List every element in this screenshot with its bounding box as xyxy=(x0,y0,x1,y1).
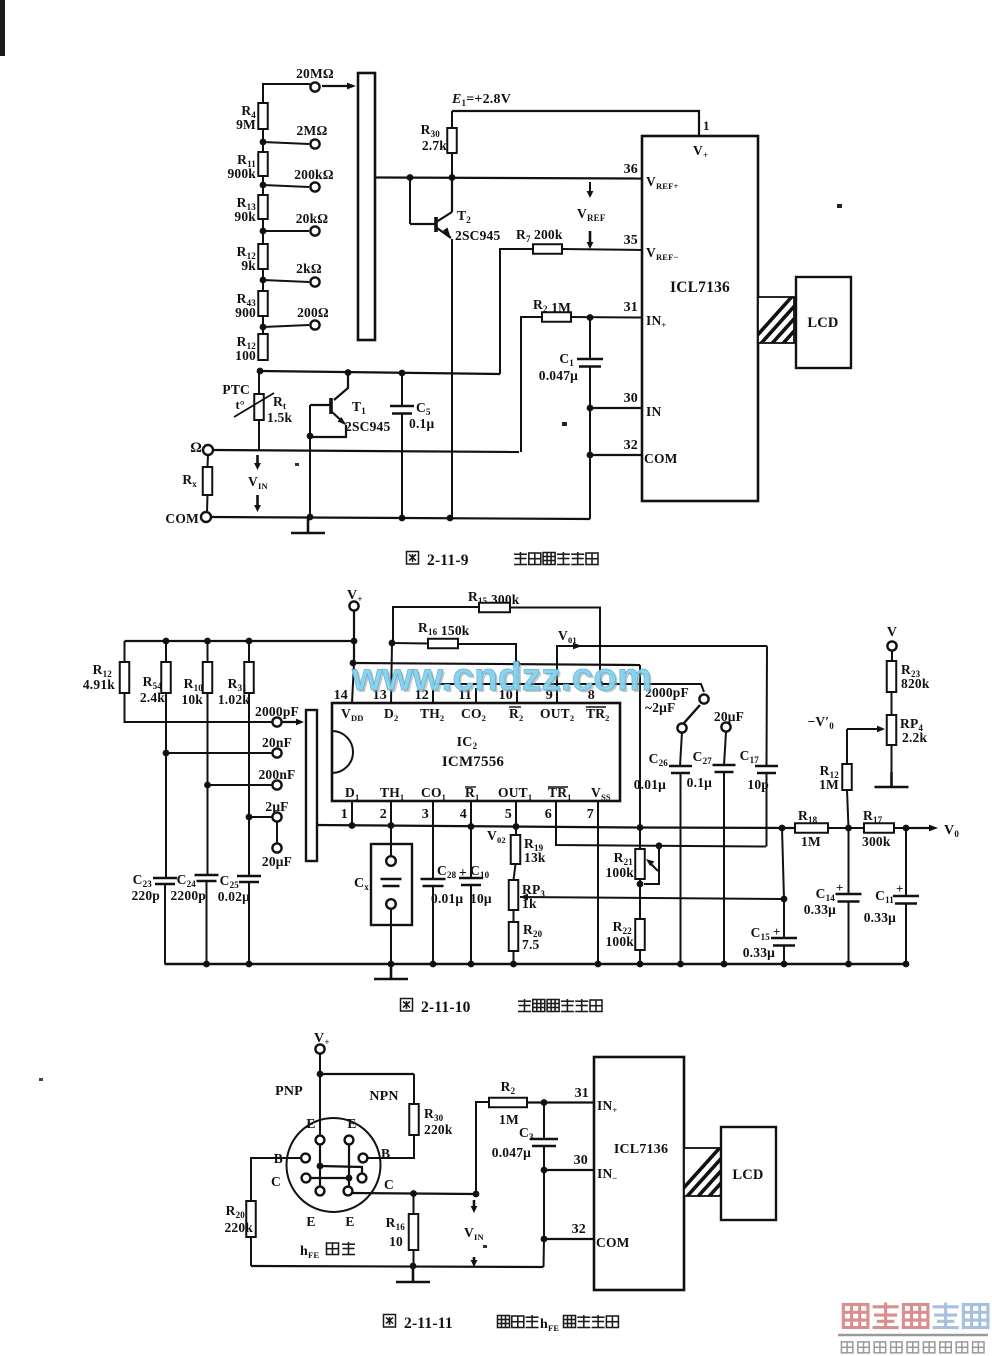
resistor R30 220k xyxy=(409,1104,419,1135)
wire xyxy=(905,828,907,896)
contact 200k&#937; xyxy=(310,182,319,191)
wire pin 6 TR1 node xyxy=(556,801,766,847)
node junction xyxy=(430,961,437,968)
wire xyxy=(783,899,785,938)
logo yiditu training xyxy=(843,1305,868,1328)
node junction xyxy=(407,174,414,181)
resistor R22 100k xyxy=(635,919,645,950)
svg-text:0.02μ: 0.02μ xyxy=(218,889,250,904)
svg-text:4: 4 xyxy=(460,807,467,822)
resistor R43 xyxy=(258,291,268,316)
resistor R16 10 xyxy=(409,1214,419,1250)
wire xyxy=(322,85,352,87)
svg-text:COM: COM xyxy=(644,451,678,466)
contact 2M&#937; xyxy=(310,139,319,148)
svg-text:200Ω: 200Ω xyxy=(297,305,329,320)
wire xyxy=(905,903,907,964)
annotation VIN xyxy=(256,455,259,466)
svg-text:20kΩ: 20kΩ xyxy=(296,211,329,226)
svg-text:ICM7556: ICM7556 xyxy=(442,754,505,770)
rotary selector bar S2 xyxy=(306,710,317,861)
wire supply rail xyxy=(125,640,355,642)
wire xyxy=(262,185,264,195)
svg-text:31: 31 xyxy=(575,1086,589,1101)
terminal V+ xyxy=(315,1044,324,1053)
caption fig 2-11-11 xyxy=(384,1315,396,1328)
wire pin 10 stub xyxy=(516,664,518,703)
ground xyxy=(374,964,408,979)
svg-text:E1=+2.8V: E1=+2.8V xyxy=(451,92,511,108)
wire TH2-TR2 node xyxy=(433,684,704,703)
wire xyxy=(680,773,682,964)
wire xyxy=(513,951,515,964)
paper speck xyxy=(39,1078,43,1081)
svg-text:E: E xyxy=(306,1116,315,1131)
socket pin C left xyxy=(302,1174,311,1183)
wire xyxy=(413,1250,415,1266)
wire to pin 31 xyxy=(571,316,642,319)
node junction xyxy=(656,842,663,849)
resistor R11 xyxy=(258,152,268,176)
wire to R2 xyxy=(476,1102,489,1194)
terminal COM xyxy=(201,512,211,522)
wire xyxy=(514,864,516,880)
svg-text:+: + xyxy=(896,881,904,896)
node junction xyxy=(399,515,406,522)
wire xyxy=(589,408,591,455)
wire xyxy=(250,1237,252,1266)
svg-text:IN: IN xyxy=(646,404,661,419)
resistor R18 1M xyxy=(795,823,828,833)
contact 2000pF xyxy=(272,717,281,726)
ground xyxy=(875,772,909,787)
svg-text:100k: 100k xyxy=(605,865,634,880)
node junction xyxy=(447,515,454,522)
wire to R30 xyxy=(320,1073,414,1075)
svg-text:PTC: PTC xyxy=(222,382,250,397)
node junction xyxy=(468,823,475,830)
svg-text:www.cndzz.com: www.cndzz.com xyxy=(351,656,652,699)
contact 200nF xyxy=(272,780,281,789)
wire pin stub xyxy=(470,801,472,826)
node junction xyxy=(637,824,644,831)
capacitor C15 0.33u xyxy=(771,938,797,946)
svg-text:1: 1 xyxy=(341,807,348,822)
node junction xyxy=(246,638,253,645)
resistor R15 300k xyxy=(479,603,510,613)
wire C5 to COM rail xyxy=(401,414,403,519)
wire rail to R21 xyxy=(353,663,640,665)
wire xyxy=(500,249,533,374)
IC U3 ICL7136 xyxy=(594,1057,684,1290)
capacitor C17 10p xyxy=(755,766,778,773)
capacitor C11 0.33u xyxy=(893,896,919,904)
resistor R16 150k xyxy=(428,639,458,649)
socket pin E top-left xyxy=(316,1136,325,1145)
svg-text:Ω: Ω xyxy=(190,440,202,456)
svg-text:COM: COM xyxy=(596,1235,630,1250)
wire xyxy=(262,219,264,231)
wire Cx to rail xyxy=(390,909,392,964)
contact switch bottom xyxy=(677,723,686,732)
svg-text:1M: 1M xyxy=(801,834,821,849)
capacitor C10 10u xyxy=(459,878,483,885)
node junction xyxy=(468,961,475,968)
wire xyxy=(401,373,403,406)
scan edge artifact xyxy=(0,0,5,56)
svg-text:0.01μ: 0.01μ xyxy=(634,777,666,792)
wire xyxy=(589,366,591,408)
svg-text:3: 3 xyxy=(422,807,429,822)
svg-text:2200p: 2200p xyxy=(170,888,206,903)
svg-text:~2μF: ~2μF xyxy=(645,700,675,715)
svg-text:0.33μ: 0.33μ xyxy=(804,902,836,917)
svg-text:31: 31 xyxy=(624,300,638,315)
rotary selector bar S1 xyxy=(358,73,375,340)
socket pin B right xyxy=(359,1154,368,1163)
wire switch arm xyxy=(684,705,700,723)
node junction xyxy=(307,514,314,521)
svg-text:14: 14 xyxy=(334,688,348,703)
resistor R30 2.7k xyxy=(447,128,457,153)
svg-text:2kΩ: 2kΩ xyxy=(296,261,322,276)
wire socket internal xyxy=(319,1144,321,1187)
wire ground rail xyxy=(165,963,907,965)
svg-text:LCD: LCD xyxy=(732,1167,763,1183)
resistor R23 820k xyxy=(887,661,897,692)
wire xyxy=(393,607,479,643)
wire 2000pF range xyxy=(125,693,273,722)
wire socket internal xyxy=(348,1144,350,1187)
contact 20M xyxy=(310,82,319,91)
wire 20nF range xyxy=(166,752,272,754)
resistor R20 220k xyxy=(246,1201,256,1237)
caption fig 2-11-9 xyxy=(407,552,419,565)
resistor R12 1M xyxy=(842,764,852,790)
resistor R20 7.5 xyxy=(509,922,519,951)
wire T2 emitter down to COM rail xyxy=(451,239,453,518)
node junction xyxy=(351,638,358,645)
svg-text:0.01μ: 0.01μ xyxy=(431,891,463,906)
wire RP3 wiper xyxy=(520,897,784,899)
wire xyxy=(782,828,784,899)
capacitor C14 0.33u xyxy=(836,894,862,902)
svg-text:PNP: PNP xyxy=(275,1084,303,1099)
wire V+ down to socket xyxy=(319,1054,321,1136)
wire xyxy=(846,729,848,764)
svg-text:2SC945: 2SC945 xyxy=(345,419,391,434)
svg-text:1: 1 xyxy=(703,118,710,133)
wire xyxy=(521,317,542,452)
svg-text:2: 2 xyxy=(380,807,387,822)
svg-text:COM: COM xyxy=(165,511,199,526)
node junction xyxy=(449,174,456,181)
node junction xyxy=(246,814,253,821)
wire xyxy=(470,826,472,878)
IC U2 ICM7556 xyxy=(332,703,620,801)
ground xyxy=(396,1267,430,1282)
svg-text:7: 7 xyxy=(587,807,594,822)
svg-text:2SC945: 2SC945 xyxy=(455,228,501,243)
wire pin 32 xyxy=(544,1238,594,1240)
wire xyxy=(263,84,310,103)
logo subtitle xyxy=(841,1342,852,1353)
svg-text:900: 900 xyxy=(235,305,256,320)
wire pin stub xyxy=(515,801,517,826)
contact 200&#937; xyxy=(310,320,319,329)
wire main node to pin 36 xyxy=(375,178,642,179)
wire xyxy=(248,882,250,964)
paper speck xyxy=(483,1245,487,1248)
resistor R17 300k xyxy=(864,823,894,833)
wire xyxy=(891,692,893,715)
wire pin stub xyxy=(351,801,353,826)
node junction xyxy=(204,638,211,645)
wire pin stub xyxy=(390,801,392,826)
svg-text:4.91k: 4.91k xyxy=(83,677,115,692)
wire xyxy=(451,153,453,178)
terminal ohm xyxy=(203,445,213,455)
wire xyxy=(639,879,641,919)
wire pin 30 xyxy=(590,407,642,409)
svg-text:2-11-10: 2-11-10 xyxy=(421,999,471,1016)
wire xyxy=(262,176,264,185)
svg-text:C: C xyxy=(384,1177,394,1192)
caption fig 2-11-10 xyxy=(401,999,413,1012)
wire xyxy=(458,644,516,664)
node junction xyxy=(350,660,357,667)
wire xyxy=(262,269,264,280)
wire xyxy=(640,826,795,829)
wire xyxy=(248,641,250,662)
node junction xyxy=(388,822,395,829)
socket pin E bot-left xyxy=(316,1187,325,1196)
svg-text:ICL7136: ICL7136 xyxy=(614,1142,668,1157)
svg-text:7.5: 7.5 xyxy=(522,937,540,952)
svg-text:1.02k: 1.02k xyxy=(218,692,250,707)
wire xyxy=(206,495,209,512)
contact 2k&#937; xyxy=(310,277,319,286)
contact 20nF xyxy=(272,748,281,757)
node junction xyxy=(781,896,788,903)
svg-text:0.1μ: 0.1μ xyxy=(409,416,434,431)
svg-text:220k: 220k xyxy=(424,1122,453,1137)
node junction xyxy=(510,961,517,968)
wire C17 bottom xyxy=(766,773,768,847)
svg-text:10: 10 xyxy=(389,1234,403,1249)
node junction xyxy=(637,881,644,888)
svg-text:E: E xyxy=(306,1214,315,1229)
wire xyxy=(263,142,309,144)
svg-text:200k: 200k xyxy=(534,227,563,242)
wire pin 7 VSS to rail xyxy=(597,801,599,964)
capacitor C25 0.02u xyxy=(237,876,261,882)
wire xyxy=(124,641,126,662)
node junction xyxy=(203,961,210,968)
node junction xyxy=(587,452,594,459)
wire socket internal xyxy=(320,1166,362,1173)
resistor R19 13k xyxy=(511,835,521,864)
wire xyxy=(680,732,682,766)
svg-text:36: 36 xyxy=(624,162,638,177)
wire pin 13 stub xyxy=(391,643,392,703)
terminal V xyxy=(887,641,896,650)
svg-text:0.047μ: 0.047μ xyxy=(492,1145,531,1160)
svg-text:10k: 10k xyxy=(181,692,203,707)
wire wiper tie xyxy=(644,846,659,884)
terminal V+ xyxy=(349,601,358,610)
node junction xyxy=(345,369,352,376)
node junction xyxy=(260,182,267,189)
svg-text:+: + xyxy=(836,880,844,895)
svg-text:820k: 820k xyxy=(901,676,930,691)
wire xyxy=(262,231,264,244)
wire xyxy=(848,902,850,965)
wire xyxy=(263,185,309,187)
wire xyxy=(432,886,434,964)
node junction xyxy=(204,782,211,789)
node junction xyxy=(260,228,267,235)
wire xyxy=(263,325,309,327)
wire xyxy=(165,693,167,878)
resistor R13 xyxy=(258,195,268,219)
node junction xyxy=(597,681,604,688)
ground xyxy=(291,518,325,533)
wire V01 xyxy=(557,646,767,703)
potentiometer RP3 1k xyxy=(509,880,519,910)
svg-text:OUT2: OUT2 xyxy=(540,706,574,723)
LCD bus hatch xyxy=(671,1142,791,1202)
svg-text:100k: 100k xyxy=(605,934,634,949)
svg-text:220k: 220k xyxy=(224,1220,253,1235)
svg-text:9M: 9M xyxy=(236,117,256,132)
node junction xyxy=(389,640,396,647)
svg-text:20μF: 20μF xyxy=(714,709,744,724)
node junction xyxy=(257,368,264,375)
wire xyxy=(724,732,726,765)
wire xyxy=(207,641,209,662)
svg-text:35: 35 xyxy=(624,233,638,248)
wire pin 3 to C28 xyxy=(432,801,434,879)
socket pin C right xyxy=(358,1174,367,1183)
resistor R14 xyxy=(258,334,268,360)
svg-text:2-11-9: 2-11-9 xyxy=(427,552,469,569)
svg-text:ICL7136: ICL7136 xyxy=(670,279,730,296)
node junction xyxy=(513,823,520,830)
node junction xyxy=(410,1190,417,1197)
wire xyxy=(513,910,515,922)
wire xyxy=(848,828,850,894)
node junction xyxy=(410,1263,417,1270)
wire xyxy=(263,280,309,282)
node junction xyxy=(903,961,910,968)
wire socket internal xyxy=(311,1177,350,1179)
wire RP4 wiper xyxy=(847,728,881,730)
wire xyxy=(639,950,641,964)
contact 20k&#937; xyxy=(310,226,319,235)
wire xyxy=(206,881,208,964)
node junction xyxy=(845,825,852,832)
wire to rail xyxy=(543,1239,546,1267)
node junction xyxy=(779,825,786,832)
svg-text:2-11-11: 2-11-11 xyxy=(404,1315,453,1332)
svg-text:2.7k: 2.7k xyxy=(422,138,447,153)
socket pin E top-right xyxy=(345,1136,354,1145)
node junction xyxy=(587,405,594,412)
wire R15 to pin 8 node xyxy=(510,608,600,685)
potentiometer R21 100k xyxy=(635,849,645,879)
wire pin 14 stub xyxy=(352,663,354,703)
svg-text:1M: 1M xyxy=(819,777,839,792)
wire xyxy=(165,641,167,662)
wire bottom rail xyxy=(251,1266,544,1267)
LCD bus hatch xyxy=(745,291,863,349)
wire 2uF range xyxy=(249,816,272,818)
wire 200nF range xyxy=(208,784,273,786)
wire E out xyxy=(353,1193,477,1194)
svg-text:20μF: 20μF xyxy=(262,854,292,869)
wire down to R21 xyxy=(639,665,641,849)
capacitor C1 0.047u xyxy=(577,359,603,367)
node junction xyxy=(781,961,788,968)
wire xyxy=(783,946,785,965)
svg-text:1.5k: 1.5k xyxy=(267,410,292,425)
svg-text:t°: t° xyxy=(235,398,245,412)
socket pin B left xyxy=(301,1154,310,1163)
svg-text:0.1μ: 0.1μ xyxy=(687,775,712,790)
svg-text:E: E xyxy=(345,1214,354,1229)
svg-text:13k: 13k xyxy=(524,850,546,865)
node junction xyxy=(541,1167,548,1174)
wire xyxy=(262,129,264,142)
wire xyxy=(413,1074,415,1104)
svg-text:E: E xyxy=(347,1116,356,1131)
node junction xyxy=(541,1236,548,1243)
svg-text:30: 30 xyxy=(624,391,638,406)
capacitor C27 0.1u xyxy=(713,765,736,772)
wire down to COM rail xyxy=(589,455,591,519)
wire xyxy=(589,317,591,359)
wire xyxy=(543,1170,545,1239)
node junction xyxy=(163,750,170,757)
wire xyxy=(164,884,166,964)
node junction xyxy=(260,139,267,146)
wire C17 top xyxy=(766,646,769,766)
svg-text:0.047μ: 0.047μ xyxy=(539,368,578,383)
annotation VIN xyxy=(473,1200,476,1209)
capacitor C3 0.047u xyxy=(530,1139,558,1146)
wire R30 to B right xyxy=(368,1135,414,1158)
resistor timing 3 xyxy=(203,662,213,693)
wire xyxy=(470,885,472,964)
wire pin 31 xyxy=(527,1101,594,1103)
svg-text:V: V xyxy=(887,625,897,640)
wire xyxy=(891,745,893,787)
svg-text:LCD: LCD xyxy=(807,315,838,331)
node junction xyxy=(473,1191,480,1198)
potentiometer RP4 2.2k xyxy=(887,715,897,745)
transistor T2 2SC945 xyxy=(410,178,501,244)
svg-text:2.2k: 2.2k xyxy=(902,730,927,745)
wire xyxy=(543,1102,545,1139)
wire xyxy=(828,827,864,829)
wire xyxy=(207,693,209,875)
paper speck xyxy=(837,204,842,208)
svg-text:300k: 300k xyxy=(862,834,891,849)
wire xyxy=(894,827,906,829)
socket pin E bot-right xyxy=(344,1187,353,1196)
node junction xyxy=(541,1099,548,1106)
